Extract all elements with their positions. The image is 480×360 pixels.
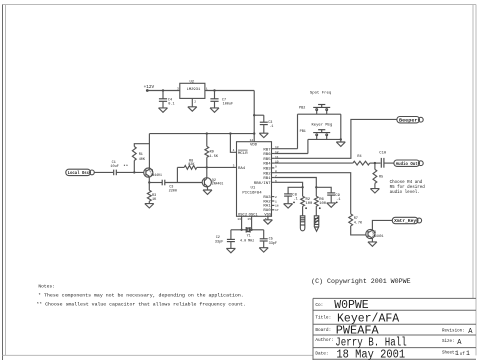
ground below R5	[370, 189, 379, 193]
pin 18 stub RA1	[272, 205, 279, 208]
ground below R3	[145, 204, 154, 208]
node paddle plug left	[300, 216, 305, 231]
capacitor C8 .1	[284, 194, 298, 204]
svg-text:RB6: RB6	[263, 153, 271, 157]
svg-text:.1: .1	[293, 198, 298, 202]
capacitor C2 33pF	[215, 230, 235, 249]
svg-text:RA3: RA3	[263, 196, 271, 200]
pin 17 stub RA0	[272, 209, 279, 212]
svg-text:Beeper: Beeper	[399, 118, 418, 123]
node Q2 collector junction	[206, 166, 208, 168]
svg-text:40K: 40K	[139, 158, 146, 162]
pin 1 stub RA2	[272, 200, 278, 203]
node R1 base junction	[133, 171, 135, 173]
node Q1 emitter junction	[148, 181, 150, 183]
resistor R2 100	[301, 187, 313, 215]
svg-text:RA2: RA2	[263, 200, 271, 204]
node rail junction MCLR	[229, 132, 231, 134]
wire junction to C9	[316, 187, 331, 193]
svg-text:U1: U1	[251, 187, 256, 191]
svg-text:4.7K: 4.7K	[354, 221, 363, 225]
svg-text:U2: U2	[190, 80, 195, 84]
wire PB2 row	[298, 113, 341, 115]
capacitor C7 100uF	[210, 91, 233, 108]
svg-text:2200: 2200	[169, 190, 177, 194]
node +5V rail junction at VDD drop	[253, 132, 255, 134]
node paddle left junction	[301, 186, 303, 188]
wire rail to MCLR pin	[230, 134, 236, 153]
svg-text:1.5K: 1.5K	[210, 155, 219, 159]
node Beeper output connector	[397, 117, 423, 124]
transistor Q2 2N4401	[202, 178, 223, 187]
svg-text:OSC2: OSC2	[238, 214, 248, 218]
svg-text:(C) Copywright 2001 W0PWE: (C) Copywright 2001 W0PWE	[311, 278, 411, 286]
ground below C3	[259, 133, 268, 137]
transistor Q1 2N4401	[144, 168, 162, 177]
wire RB2 to R7	[274, 173, 350, 214]
ground below C5	[259, 248, 268, 252]
ground below C4	[159, 108, 168, 112]
svg-text:82K: 82K	[188, 163, 195, 167]
svg-text:100: 100	[306, 202, 314, 206]
node Xmtr_Key connector	[392, 217, 421, 224]
svg-text:3: 3	[177, 87, 179, 90]
svg-text:Notes:: Notes:	[38, 284, 55, 290]
node C4 junction	[162, 89, 164, 91]
ground below C8	[284, 204, 293, 208]
op-amp U2 regulator LM2931	[177, 80, 208, 103]
svg-text:audio level.: audio level.	[390, 190, 420, 195]
svg-text:2: 2	[194, 101, 196, 104]
svg-text:C2: C2	[216, 236, 220, 240]
svg-text:1: 1	[455, 350, 459, 357]
svg-text:PB2: PB2	[299, 106, 305, 110]
ground below C9	[327, 203, 336, 207]
pin 12 stub RB6	[272, 151, 279, 154]
node OSC2 crystal junction	[240, 229, 242, 231]
node OSC1 crystal junction	[250, 229, 252, 231]
wire feedback riser	[176, 167, 178, 182]
ground below C2	[226, 248, 235, 252]
wire R8 to collector node	[197, 166, 207, 168]
svg-text:Title:: Title:	[315, 315, 331, 320]
svg-text:10uF: 10uF	[110, 165, 118, 169]
resistor R6 100	[314, 187, 326, 215]
svg-text:LM2931: LM2931	[187, 88, 201, 92]
svg-text:33pF: 33pF	[269, 242, 277, 246]
svg-text:Revision:: Revision:	[442, 328, 465, 333]
pushbutton PB1	[300, 130, 331, 140]
node title row company	[315, 299, 368, 312]
node rail junction R9	[206, 132, 208, 134]
pin 9 stub RB3	[272, 165, 278, 168]
resistor R9 1.5K	[205, 134, 219, 168]
svg-text:Date:: Date:	[315, 352, 328, 357]
svg-text:2N4401: 2N4401	[372, 234, 384, 238]
resistor R4	[353, 155, 370, 165]
svg-text:.1: .1	[336, 198, 341, 202]
wire RB7 to PB2	[274, 148, 297, 150]
capacitor C4 0.1	[159, 91, 175, 108]
svg-text:RA0: RA0	[263, 209, 271, 213]
pin 6 stub RB0	[272, 180, 278, 183]
svg-text:* These components may not be: * These components may not be necessary,…	[38, 294, 244, 299]
svg-text:4.0 MHz: 4.0 MHz	[240, 240, 254, 244]
svg-text:C10: C10	[379, 152, 387, 156]
svg-text:18 May 2001: 18 May 2001	[336, 348, 405, 360]
wire riser to R8	[177, 166, 184, 168]
wire RB6 to PB1	[274, 153, 308, 155]
wire buttons right vertical	[340, 114, 342, 142]
node title row board	[315, 324, 473, 337]
ground below U2	[188, 107, 197, 111]
capacitor C1 10uF	[110, 161, 128, 175]
pin 16 stub OSC2	[237, 216, 241, 230]
svg-text:OSC1: OSC1	[249, 214, 259, 218]
svg-text:RB1: RB1	[263, 177, 271, 181]
svg-text:15: 15	[247, 218, 251, 221]
svg-text:VDD: VDD	[250, 144, 258, 148]
wire PB2 left vertical to RB7	[297, 114, 299, 149]
node Audio Out connector	[394, 160, 423, 167]
wire R7 to Q3 base	[351, 226, 366, 235]
node C7 junction	[213, 89, 215, 91]
node title row title	[315, 313, 399, 326]
svg-text:**: **	[123, 164, 128, 169]
svg-text:2N4401: 2N4401	[150, 173, 162, 177]
svg-text:PIC16F84: PIC16F84	[242, 192, 262, 196]
pin 8 stub RB2	[272, 170, 278, 173]
node paddle plug right	[314, 216, 319, 232]
svg-text:4: 4	[233, 149, 235, 152]
svg-text:1: 1	[275, 200, 277, 203]
svg-text:R4: R4	[357, 155, 361, 159]
svg-text:18: 18	[275, 205, 279, 208]
node PB1 right junction	[340, 138, 342, 140]
svg-text:2: 2	[275, 196, 277, 199]
svg-text:100uF: 100uF	[223, 103, 234, 107]
pin 5 stub VSS	[265, 216, 268, 221]
capacitor C10	[379, 152, 387, 168]
wire U2 ground pin	[191, 98, 193, 106]
svg-text:RA1: RA1	[263, 205, 271, 209]
node C3 junction	[253, 114, 255, 116]
svg-text:2N4401: 2N4401	[212, 181, 224, 185]
svg-text:** Choose smallest value capac: ** Choose smallest value capacitor that …	[36, 302, 246, 307]
node Local Osc input connector	[66, 169, 95, 176]
svg-text:0.1: 0.1	[168, 103, 174, 107]
pin 7 stub RB1	[272, 175, 278, 178]
node title row date	[315, 348, 470, 360]
resistor R3 1K	[147, 183, 157, 204]
resistor R5	[373, 163, 383, 189]
svg-text:Board:: Board:	[315, 328, 331, 333]
title block frame	[313, 298, 476, 360]
op-amp U1 PIC16F84 microcontroller	[237, 142, 272, 218]
pin 15 stub OSC1	[247, 216, 251, 230]
svg-text:Size:: Size:	[442, 339, 455, 344]
svg-text:Choose R4 and: Choose R4 and	[390, 180, 423, 185]
svg-text:R1: R1	[139, 153, 143, 157]
svg-text:RB4: RB4	[263, 163, 271, 167]
svg-text:R5 for desired: R5 for desired	[390, 185, 426, 190]
wire U2 output +5V	[205, 90, 254, 92]
pushbutton PB2	[299, 105, 330, 115]
svg-text:Spot Freq: Spot Freq	[310, 91, 332, 96]
ground below C7	[210, 108, 219, 112]
wire R4 to audio node	[370, 162, 381, 164]
wire Q1 emitter to C3	[149, 182, 162, 184]
svg-text:R9: R9	[210, 150, 214, 154]
ground below Q3	[368, 242, 377, 246]
svg-text:Co:: Co:	[315, 303, 323, 308]
transistor Q3 2N4401	[366, 229, 384, 238]
capacitor C9 .1	[327, 193, 341, 203]
node audio level note	[390, 180, 426, 195]
resistor R8 82K	[184, 160, 197, 170]
wire Q3 collector to Xmtr Key	[372, 220, 392, 230]
svg-text:RB3: RB3	[263, 168, 271, 172]
ground below VSS	[263, 220, 272, 224]
wire Local Osc to C1	[94, 171, 113, 173]
svg-text:100: 100	[319, 202, 327, 206]
svg-text:RA4: RA4	[238, 167, 246, 171]
capacitor C3 2200 coupling	[162, 180, 177, 194]
wire RB1 to paddle right chain	[274, 178, 316, 188]
node audio junction	[374, 162, 376, 164]
wire rail to R1 branch	[134, 134, 149, 147]
svg-text:RB7: RB7	[263, 148, 271, 152]
wire RB5 to beeper riser	[274, 119, 397, 158]
pin 11 stub RB5	[272, 156, 279, 159]
wire RB0 to paddle left chain	[274, 182, 302, 187]
svg-text:9: 9	[275, 165, 277, 168]
svg-text:3: 3	[233, 164, 235, 167]
wire +5V rail	[149, 133, 254, 135]
svg-text:RB5: RB5	[263, 158, 271, 162]
wire collector node to IC RA4	[207, 166, 237, 168]
svg-text:Y1: Y1	[247, 235, 251, 239]
pin 2 stub RA3	[272, 196, 278, 199]
wire Q1 collector to rail	[148, 144, 150, 170]
svg-text:R7: R7	[354, 217, 358, 221]
svg-text:33pF: 33pF	[215, 241, 223, 245]
svg-text:+12V: +12V	[144, 85, 155, 90]
ground below Q2	[203, 190, 212, 194]
node title row author	[315, 336, 462, 349]
svg-text:Local Osc: Local Osc	[68, 171, 90, 176]
svg-text:W0PWE: W0PWE	[334, 299, 369, 312]
wire PB1 row	[308, 138, 341, 140]
wire C10 to Audio Out	[384, 162, 394, 164]
capacitor C5 33pF	[260, 230, 277, 248]
svg-text:RB2: RB2	[263, 172, 271, 176]
crystal Y1 4.0 MHz	[231, 227, 264, 244]
svg-text:R5: R5	[379, 175, 383, 179]
svg-text:Audio Out: Audio Out	[396, 162, 418, 167]
svg-text:Author:: Author:	[315, 338, 333, 343]
ground below buttons	[336, 142, 345, 146]
resistor R1 40K	[132, 147, 146, 162]
resistor R7 4.7K	[349, 214, 363, 226]
svg-text:MCLR: MCLR	[238, 152, 248, 156]
svg-text:RB0/INT: RB0/INT	[254, 181, 271, 186]
wire PB1 left vertical to RB6	[307, 139, 309, 153]
wire Q2 collector up	[206, 167, 208, 178]
pin 13 stub RB7	[272, 146, 279, 149]
wire C3 to Q2 base	[165, 182, 203, 184]
wire +12V to U2 input	[147, 90, 180, 92]
wire Q3 emitter	[371, 238, 373, 242]
wire R1 to input node	[133, 161, 135, 173]
node Notes heading	[38, 284, 55, 290]
svg-text:Xmtr_Key: Xmtr_Key	[394, 219, 416, 224]
svg-text:16: 16	[237, 218, 241, 221]
svg-text:1: 1	[466, 350, 470, 357]
wire junction to C8	[288, 187, 303, 194]
wire C1 to Q1 base	[116, 171, 144, 173]
capacitor C3 .1	[254, 115, 273, 133]
svg-text:of: of	[460, 352, 466, 357]
svg-text:Keyer Msg: Keyer Msg	[312, 123, 333, 128]
pin 10 stub RB4	[272, 161, 279, 164]
wire +5V vertical to VDD	[253, 91, 255, 142]
wire Q2 emitter down	[207, 187, 209, 191]
svg-text:17: 17	[275, 209, 279, 212]
wire Q1 emitter down	[148, 176, 150, 182]
svg-text:.1: .1	[269, 125, 273, 129]
node +12V input terminal	[144, 85, 155, 92]
svg-text:1: 1	[206, 87, 208, 90]
wire RB4 to R4	[274, 162, 353, 164]
svg-text:PB1: PB1	[300, 130, 306, 134]
node paddle right junction	[315, 186, 317, 188]
